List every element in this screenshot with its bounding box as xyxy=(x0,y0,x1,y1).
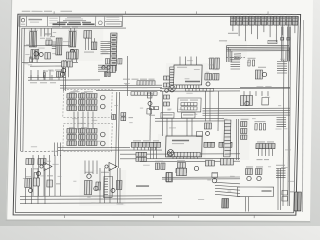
connector CN201 xyxy=(131,142,160,147)
BL labels xyxy=(85,172,93,173)
resistor pair R222 xyxy=(213,74,219,80)
resistor R152 xyxy=(56,72,60,78)
tuner column left coils L101-L102 xyxy=(29,31,32,46)
left stage verts xyxy=(32,155,61,196)
ladder under IC101 xyxy=(98,65,107,71)
label text ML xyxy=(43,71,48,72)
transistor Q405 xyxy=(247,176,252,180)
connector J201 xyxy=(169,86,176,92)
relay K902 body xyxy=(236,16,242,25)
bus hang cells xyxy=(131,92,157,96)
transistor Q106 xyxy=(102,66,105,69)
wire bus center 2 xyxy=(160,90,240,92)
wire ML verts xyxy=(31,70,50,80)
mode select box xyxy=(161,113,174,118)
zone tick top 1 xyxy=(53,11,55,14)
coil box L105 xyxy=(45,53,51,59)
capacitor C202 xyxy=(108,72,111,76)
wire vert BL2 xyxy=(99,168,121,203)
function box xyxy=(181,113,195,118)
label row C204 R205 xyxy=(123,79,130,80)
small cap C106 xyxy=(30,57,32,62)
wire TL h2 xyxy=(22,61,78,63)
wire bus mid 2 xyxy=(120,157,240,160)
relay K902 label xyxy=(236,14,241,15)
capacitor group C401 xyxy=(155,163,159,169)
relay K9010 label xyxy=(286,14,291,15)
relay K909 body xyxy=(280,17,286,26)
regulator block X301 xyxy=(240,95,252,105)
component value labels xyxy=(45,34,51,35)
doc number text xyxy=(49,17,58,20)
capacitor C902 xyxy=(252,60,254,66)
wire vert BR xyxy=(277,168,281,210)
connector pin row 2 xyxy=(136,157,147,161)
left column cell b xyxy=(163,83,169,87)
pin tick strip xyxy=(137,81,155,85)
bus label text row xyxy=(52,26,60,27)
wire pair drop a xyxy=(280,26,283,61)
connector CN301 xyxy=(256,144,275,149)
connector CN203 xyxy=(219,142,232,147)
transistor Q152 xyxy=(61,68,65,72)
channel R dashed outline xyxy=(63,124,112,152)
wire bus TL xyxy=(21,27,126,29)
marks under CN301 xyxy=(256,159,262,160)
wire from K909 xyxy=(281,25,283,35)
connector pins CN903 xyxy=(276,117,286,126)
wire verts x205 xyxy=(205,91,211,121)
bundle labels xyxy=(219,40,227,41)
wire bus ML1 xyxy=(60,84,162,87)
transistor Q104 xyxy=(39,53,43,57)
wire mesh BL1 xyxy=(20,195,162,198)
cluster right of IC201 a xyxy=(209,58,214,69)
wire hbus4 c xyxy=(203,112,291,115)
wire vert x162 xyxy=(162,91,164,136)
wire bus ML2 xyxy=(60,87,162,90)
servo block box xyxy=(178,98,201,112)
fuse box F901 xyxy=(282,191,288,195)
CN301 wire drops xyxy=(258,149,272,156)
wire ML h1 xyxy=(28,76,66,78)
wire bus BM 1 xyxy=(162,176,240,178)
wire right bus 2 xyxy=(285,26,292,206)
wire bus mid 1c xyxy=(120,153,240,156)
wire from K907 xyxy=(269,25,272,37)
resistor R403 xyxy=(166,173,172,182)
audio amp lower resistor rows xyxy=(67,128,77,133)
relay K9010 body xyxy=(286,17,292,26)
cap mark b xyxy=(287,38,290,41)
IC202 body xyxy=(166,136,203,157)
transistor Q408 xyxy=(28,189,32,193)
wire TL h1 xyxy=(24,45,70,47)
CN301 label xyxy=(257,141,265,142)
relay K904 label xyxy=(249,14,254,15)
midleft cluster boxes xyxy=(61,61,66,67)
cap mark a xyxy=(281,37,284,40)
zone tick top 4 xyxy=(267,11,269,14)
wire ML h2 xyxy=(28,79,100,81)
BM labels xyxy=(155,161,163,162)
relay K909 label xyxy=(280,14,285,15)
title block right cell xyxy=(105,22,122,27)
transistor Q402 xyxy=(212,178,217,183)
wire bus mid 1 xyxy=(58,149,162,151)
ladder wires G xyxy=(85,38,95,50)
capacitor C302 xyxy=(259,123,261,129)
scan shading right column xyxy=(221,116,250,160)
small box x148 b xyxy=(147,109,152,114)
brand logo xyxy=(21,19,24,22)
wire drops ML xyxy=(31,75,59,80)
title block divider 5 xyxy=(104,16,106,27)
channel L dashed outline xyxy=(63,90,112,118)
transistor Q407 xyxy=(111,189,115,193)
left column cell d xyxy=(163,102,169,106)
display block outline xyxy=(237,187,273,196)
left stage box b xyxy=(47,180,53,187)
wire from K901 xyxy=(232,25,234,31)
connector pins CN902 xyxy=(277,62,288,74)
title block divider 3 xyxy=(59,16,61,27)
tuning gang VC101 xyxy=(84,30,92,38)
ground bus dashed xyxy=(21,150,58,152)
resistor box R220 xyxy=(204,123,211,129)
transistor Q301 xyxy=(245,101,250,105)
transistor Q208 xyxy=(206,82,210,86)
zone tick bottom 4 xyxy=(253,215,255,218)
transistor Q403 xyxy=(87,174,92,178)
approval stamp xyxy=(98,21,102,25)
scan shading tuner area xyxy=(20,28,103,61)
zone tick bottom 3 xyxy=(178,215,180,218)
revision cell text xyxy=(106,17,119,18)
IF strip IC101 xyxy=(110,33,117,71)
pin cells IC101 bottom xyxy=(107,65,115,72)
wire RM h xyxy=(240,86,290,88)
CN201 stub wires xyxy=(150,147,157,158)
BR labels xyxy=(246,166,253,167)
cluster right of IC201 b xyxy=(215,58,220,69)
fan wire 4 xyxy=(215,191,240,193)
ceramic filter CF101 xyxy=(91,42,97,50)
wire bus center 1 xyxy=(160,87,290,90)
wire from K9010 xyxy=(287,25,290,40)
capacitor C301 xyxy=(255,124,257,130)
RM labels xyxy=(254,121,265,122)
IC202 pin drops xyxy=(173,157,198,159)
pin cells on bus xyxy=(185,88,213,91)
IC101 pin wires xyxy=(100,42,111,54)
wire ML h0 xyxy=(30,65,62,67)
relay K906 label xyxy=(261,14,266,15)
transistor Q103 xyxy=(70,49,75,53)
fan wire 5 xyxy=(215,194,240,196)
paper bottom edge shadow xyxy=(6,220,311,223)
IC202 part number text xyxy=(172,140,189,142)
wire vert x150 xyxy=(149,92,151,140)
wire bus mid 3 xyxy=(140,160,240,163)
wire bundle top-right xyxy=(226,44,289,46)
capacitor row C402 xyxy=(176,168,187,172)
transistor cluster BR boxes xyxy=(245,168,252,174)
flank box right xyxy=(118,59,122,64)
transistor Q203 xyxy=(100,104,105,109)
relay K908 label xyxy=(274,14,279,15)
left stage box a xyxy=(33,178,39,186)
transformer T401 xyxy=(104,177,113,198)
scan shading amp clusters xyxy=(67,92,111,150)
transistor Q409 xyxy=(36,172,40,176)
wire from K902 xyxy=(238,25,241,36)
transistor Q401 xyxy=(194,166,199,170)
transistor Q404 xyxy=(94,186,99,190)
left stage labels xyxy=(33,168,39,169)
zone tick bottom 1 xyxy=(63,215,65,218)
IC201 part number text xyxy=(185,81,200,83)
fan wire 2 xyxy=(215,185,240,187)
transistor Q406 xyxy=(257,176,262,180)
wire from K906 xyxy=(263,25,265,32)
fan wire 3 xyxy=(215,188,240,190)
label text G xyxy=(84,52,94,53)
wire vert x65 xyxy=(65,60,66,91)
T101 ladder xyxy=(52,42,57,48)
capacitor C201 xyxy=(104,72,107,76)
zone tick top 3 xyxy=(196,11,198,14)
wire bus mid 1b xyxy=(58,146,130,148)
IC201 bottom pins xyxy=(176,85,199,89)
resistor pair R221 xyxy=(205,73,212,79)
wire mesh BL3 xyxy=(20,202,162,205)
amp labels xyxy=(70,91,79,92)
scan shading center IC2 xyxy=(157,134,206,160)
title block outline xyxy=(19,16,123,27)
midleft verts xyxy=(62,67,68,77)
left column cell c xyxy=(163,95,169,99)
capacitor C901 xyxy=(248,60,250,66)
mixer box T102 xyxy=(66,52,75,59)
electrolytic C211 xyxy=(121,117,126,121)
wires under boxes xyxy=(167,118,193,136)
resistor R151 xyxy=(43,72,45,77)
IC201 left pin cells xyxy=(169,67,174,85)
CN201 label xyxy=(133,140,141,141)
filter block FL401 xyxy=(220,159,233,165)
resistor block R901 xyxy=(255,70,262,79)
model number text xyxy=(28,19,42,20)
left column cell a xyxy=(163,76,169,80)
wire center vert 2 xyxy=(118,92,120,168)
tuner mid verts xyxy=(41,28,52,36)
left rail wire 1 xyxy=(19,28,23,151)
label text RT xyxy=(247,58,255,59)
resistor box R404 xyxy=(26,159,34,165)
wire hbus4 a xyxy=(202,107,290,110)
fan wire 1 xyxy=(215,182,240,183)
page edge shadow line xyxy=(299,20,307,212)
wire bus ML3 xyxy=(96,89,162,91)
transistor Q901 xyxy=(262,72,267,76)
title block divider 2 xyxy=(46,16,48,27)
wire verts BL3 xyxy=(85,160,98,174)
border frame outer xyxy=(13,14,300,215)
box pair mid xyxy=(46,40,52,45)
relay K901 label xyxy=(230,14,235,15)
border frame inner xyxy=(15,16,298,213)
tiny box pair xyxy=(149,107,153,110)
wires above IC201 xyxy=(180,56,197,65)
wire from K904 xyxy=(250,25,252,34)
connector pin row xyxy=(136,152,147,156)
flank box left xyxy=(105,59,109,64)
wire from K9011 xyxy=(294,25,296,33)
wire mesh BL2 xyxy=(20,198,162,201)
relay K907 body xyxy=(268,17,274,26)
CN201 drops xyxy=(134,147,156,150)
small box x197 xyxy=(196,132,202,137)
IF transformer T101 xyxy=(56,38,62,55)
resistor R210 xyxy=(112,115,116,120)
small box x148 a xyxy=(147,93,152,98)
relay K905 body xyxy=(255,17,261,26)
IC301 pin ladder xyxy=(224,120,231,157)
relay K906 body xyxy=(261,16,267,25)
wire drops to X301 xyxy=(244,91,268,96)
wire hbus4 b xyxy=(203,109,290,112)
label stamp box xyxy=(294,192,301,211)
wire from K908 xyxy=(275,25,278,42)
wire from K905 xyxy=(256,25,259,39)
wires under display xyxy=(245,197,249,212)
capacitor C403 xyxy=(34,172,38,179)
capacitor C303 xyxy=(263,124,265,130)
wire mesh label xyxy=(136,185,149,187)
title block divider 1 xyxy=(25,16,27,27)
resistor group R402 xyxy=(205,161,214,166)
transistor Q204 xyxy=(100,132,105,137)
wire hbus4 d xyxy=(202,114,290,117)
wire right bus 1 xyxy=(280,60,286,206)
wire vert x127 xyxy=(127,56,129,96)
relay box K301 xyxy=(262,97,269,104)
transistor Q151 xyxy=(60,72,64,76)
paper left edge shadow xyxy=(6,0,12,220)
transistor Q207 xyxy=(205,132,209,136)
transistor Q206 xyxy=(148,102,152,106)
relay K9011 body xyxy=(292,16,298,25)
ML bottom labels xyxy=(30,82,37,83)
scan shading bottom left xyxy=(79,170,126,206)
wire interconnect P xyxy=(74,111,94,129)
transistor Q101 xyxy=(34,52,39,56)
relay K903 body xyxy=(243,17,249,26)
title block divider 4 xyxy=(95,16,97,27)
relay K908 body xyxy=(274,16,280,25)
connector CN202 xyxy=(204,142,215,147)
schematic title text xyxy=(67,17,81,18)
resistor rows R301 xyxy=(240,121,247,126)
wire vert BL xyxy=(25,168,46,204)
zone tick bottom 2 xyxy=(153,215,155,218)
wire CH h2 xyxy=(155,120,224,122)
connector pins CN904 xyxy=(276,168,286,177)
audio amp upper resistor rows xyxy=(67,93,77,98)
vertical ladder ML2 xyxy=(54,142,61,156)
wire vert x63 xyxy=(63,60,64,91)
transistor Q107 xyxy=(107,66,110,69)
resistor group R401 xyxy=(177,163,185,168)
wire bus BM 2 xyxy=(162,178,240,180)
power cluster boxes xyxy=(84,181,92,195)
wire from K903 xyxy=(244,25,247,41)
relay K901 body xyxy=(230,17,236,26)
IC201 body xyxy=(174,65,203,85)
servo block keys xyxy=(181,102,197,105)
tuner mid marks xyxy=(40,38,45,39)
wire vert x218 xyxy=(218,91,219,131)
label box RT xyxy=(268,40,277,43)
speaker terminal box xyxy=(166,173,172,182)
IC202 bottom pin cells xyxy=(168,152,200,157)
ladder right of IC201 xyxy=(230,57,240,69)
transistor Q209 xyxy=(165,89,169,93)
wire vert right-mid xyxy=(236,119,240,160)
transistor Q205 xyxy=(100,141,105,146)
coil L401 xyxy=(25,178,32,187)
wire CH h1 xyxy=(155,117,224,119)
sheet file-number text xyxy=(22,11,31,12)
relay K903 label xyxy=(243,14,248,15)
wire center vert 1 xyxy=(115,92,117,168)
scan shading crosshatch xyxy=(225,40,248,60)
bus labels xyxy=(128,117,133,118)
tuner column right coils L103-L104 xyxy=(69,32,72,47)
wire pair drop b xyxy=(287,26,290,61)
relay K9011 label xyxy=(292,14,297,15)
relay K904 body xyxy=(249,16,255,25)
scan shading center IC xyxy=(165,63,208,93)
transistor Q202 xyxy=(100,95,105,100)
terminal cells xyxy=(176,168,186,175)
connector J202 xyxy=(167,150,174,156)
relay K907 label xyxy=(267,14,272,15)
relay K905 label xyxy=(255,14,260,15)
zone tick top 2 xyxy=(124,11,126,14)
power connector box xyxy=(222,198,229,207)
electrolytic C210 xyxy=(121,112,126,116)
op-amp triangle IC401 xyxy=(44,163,52,171)
op-amp triangle IC402 xyxy=(109,163,117,171)
wire right bus 3 xyxy=(286,26,293,206)
left rail wire 2 xyxy=(21,28,25,151)
